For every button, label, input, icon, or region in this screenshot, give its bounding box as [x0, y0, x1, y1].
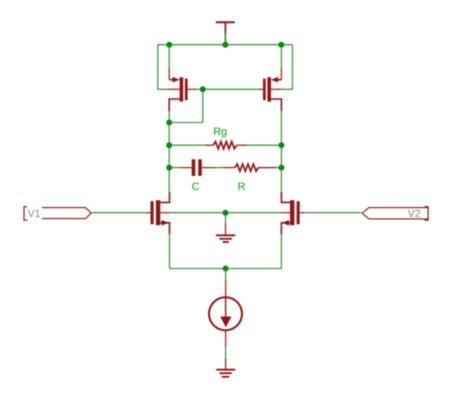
gate pin	[188, 88, 197, 90]
gate bar	[151, 201, 154, 224]
node left Rg	[166, 142, 172, 148]
wire M1 source down	[169, 234, 171, 268]
source lead + arrow	[281, 223, 290, 235]
resistor R	[223, 164, 277, 171]
connector V2	[362, 207, 428, 220]
wire left column	[168, 111, 170, 192]
ground bottom	[216, 359, 235, 377]
wire tail stem	[225, 269, 227, 280]
wire below current source	[225, 347, 227, 358]
drain lead	[160, 192, 169, 202]
node bulk center	[223, 210, 229, 216]
source pin vertical	[280, 68, 282, 80]
wire V1 to M1 gate	[92, 212, 147, 214]
wire M2 source down	[280, 234, 282, 268]
wire gate-drain tie horizontal	[169, 122, 203, 124]
drain lead	[271, 99, 281, 111]
wire supply stem	[224, 33, 226, 45]
gate pin	[300, 212, 304, 214]
wire Rg row left	[169, 144, 205, 146]
bulk pin	[281, 212, 290, 214]
wire bulk ground stem	[225, 213, 227, 223]
gate pin	[259, 88, 264, 90]
node tail	[223, 266, 229, 272]
nmos M2 (right)	[281, 192, 304, 234]
source lead + arrow	[169, 79, 175, 81]
capacitor C	[180, 159, 215, 176]
channel bar	[180, 77, 184, 101]
current source I1	[209, 280, 242, 348]
bulk pin	[271, 88, 281, 90]
wire M2 gate to V2	[304, 212, 361, 214]
source lead + arrow	[160, 223, 169, 235]
wire M4 source up	[280, 45, 282, 68]
source pin vertical	[168, 68, 170, 80]
svg-text:Rg: Rg	[213, 126, 227, 138]
wire right column	[280, 111, 282, 192]
wire M3 source up	[168, 45, 170, 68]
bulk pin	[168, 88, 180, 90]
drain lead	[281, 192, 290, 202]
ground center (bulk)	[216, 223, 235, 242]
svg-text:R: R	[238, 181, 246, 193]
pmos M3 (left, diode-connected)	[168, 68, 197, 111]
node rail-center	[222, 42, 228, 48]
node rail-right	[278, 42, 284, 48]
channel bar	[290, 200, 294, 225]
gate bar	[263, 79, 266, 101]
node drain tie	[166, 120, 172, 126]
wire C to R	[215, 167, 222, 169]
wire gate bus between M3 and M4	[203, 88, 259, 90]
node rail-left	[166, 42, 172, 48]
wire left bulk drop	[158, 45, 168, 90]
node right CR	[278, 165, 284, 171]
gate bar	[185, 79, 188, 101]
svg-text:V1: V1	[28, 208, 41, 220]
wire source join	[170, 268, 282, 270]
node gate bus	[200, 86, 206, 92]
channel bar	[156, 200, 160, 225]
channel bar	[267, 77, 271, 101]
wire CR row left	[169, 167, 180, 169]
connector V1	[24, 207, 91, 220]
wire Rg row right	[247, 144, 282, 146]
wire top rail	[158, 44, 293, 46]
wire bulk bus	[170, 212, 281, 214]
wire right bulk drop	[281, 45, 292, 90]
wire R to right column	[276, 167, 281, 169]
pmos M4 (right)	[259, 68, 282, 111]
supply V+ symbol	[216, 22, 235, 33]
bulk pin	[160, 212, 170, 214]
nmos M1 (left)	[147, 192, 171, 234]
resistor Rg	[206, 142, 247, 149]
gate bar	[297, 201, 300, 224]
svg-text:V2: V2	[408, 208, 421, 220]
gate pin	[147, 212, 151, 214]
drain lead	[169, 99, 179, 111]
wire gate-drain tie vertical	[202, 89, 204, 122]
node right Rg	[278, 142, 284, 148]
svg-text:C: C	[192, 181, 200, 193]
source lead + arrow	[276, 79, 282, 81]
node left CR	[166, 165, 172, 171]
wire M3 gate to node	[197, 88, 203, 90]
